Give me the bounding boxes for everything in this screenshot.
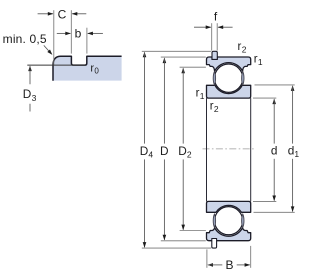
- svg-text:1: 1: [294, 149, 299, 159]
- svg-text:3: 3: [32, 93, 37, 103]
- extension line d1 bottom: [254, 211, 295, 213]
- snap ring (bottom, white): [212, 239, 217, 249]
- svg-text:0: 0: [94, 67, 99, 76]
- svg-text:d: d: [271, 143, 278, 157]
- inner ring face lines through bore: [206, 98, 208, 201]
- D3 reference line (groove bottom diameter): [27, 64, 85, 66]
- extension line D2 bottom: [180, 230, 206, 232]
- svg-text:2: 2: [214, 104, 219, 114]
- svg-text:d: d: [288, 143, 295, 157]
- extension line d top: [253, 97, 276, 99]
- extension line C left (at ring face): [53, 10, 55, 65]
- dimension D4: [143, 52, 147, 58]
- leader arrow to face corner: [44, 45, 51, 53]
- svg-text:4: 4: [148, 149, 153, 159]
- inner ring top section: [207, 85, 251, 98]
- extension line d bottom: [253, 200, 276, 202]
- outer ring bottom section: [207, 228, 251, 241]
- extension line D top (bearing OD): [161, 56, 206, 58]
- dimension D: [163, 58, 167, 64]
- extension line D bottom: [161, 240, 206, 242]
- detail profile outline (OD surface + groove): [53, 56, 122, 81]
- svg-text:D: D: [23, 87, 32, 101]
- B extension line right: [250, 246, 252, 268]
- ball (bottom): [215, 207, 243, 235]
- svg-text:D: D: [140, 144, 149, 158]
- dimension d1: [291, 85, 295, 91]
- svg-text:B: B: [225, 258, 233, 272]
- B extension line left: [206, 249, 208, 267]
- svg-text:D: D: [178, 144, 187, 158]
- outer ring groove detail section: [53, 56, 122, 80]
- svg-text:min. 0,5: min. 0,5: [3, 32, 47, 46]
- extension line D4 bottom: [142, 247, 211, 249]
- centerline: [203, 148, 256, 150]
- inner ring bottom section: [207, 201, 251, 212]
- cage section right (top): [242, 72, 244, 85]
- snap ring groove walls (top): [212, 57, 217, 59]
- f arrows: [194, 26, 211, 28]
- extension line groove right wall: [86, 28, 88, 54]
- dimension d: [272, 99, 276, 105]
- snap ring (top, NR): [212, 51, 217, 59]
- cage section left (top): [213, 72, 215, 85]
- outer ring top section: [207, 57, 251, 71]
- svg-text:1: 1: [258, 57, 263, 67]
- dimension D2: [181, 68, 185, 74]
- dimension b: [57, 32, 71, 34]
- svg-text:1: 1: [200, 91, 205, 101]
- svg-text:2: 2: [242, 44, 247, 54]
- dimension D3: [28, 66, 32, 72]
- svg-text:D: D: [160, 144, 169, 158]
- cage section right (bottom): [242, 214, 244, 227]
- cage section left (bottom): [213, 214, 215, 227]
- svg-text:2: 2: [187, 149, 192, 159]
- extension line groove left wall: [70, 10, 72, 53]
- svg-text:C: C: [58, 8, 67, 22]
- dimension B: [207, 263, 213, 267]
- extension line D2 top: [180, 66, 206, 68]
- extension line d1 top: [255, 84, 295, 86]
- svg-text:b: b: [75, 26, 82, 40]
- ball (top): [214, 64, 242, 92]
- extension line D4 top (snap ring OD): [142, 50, 211, 52]
- f extension lines: [211, 23, 213, 50]
- dimension C: [38, 13, 53, 15]
